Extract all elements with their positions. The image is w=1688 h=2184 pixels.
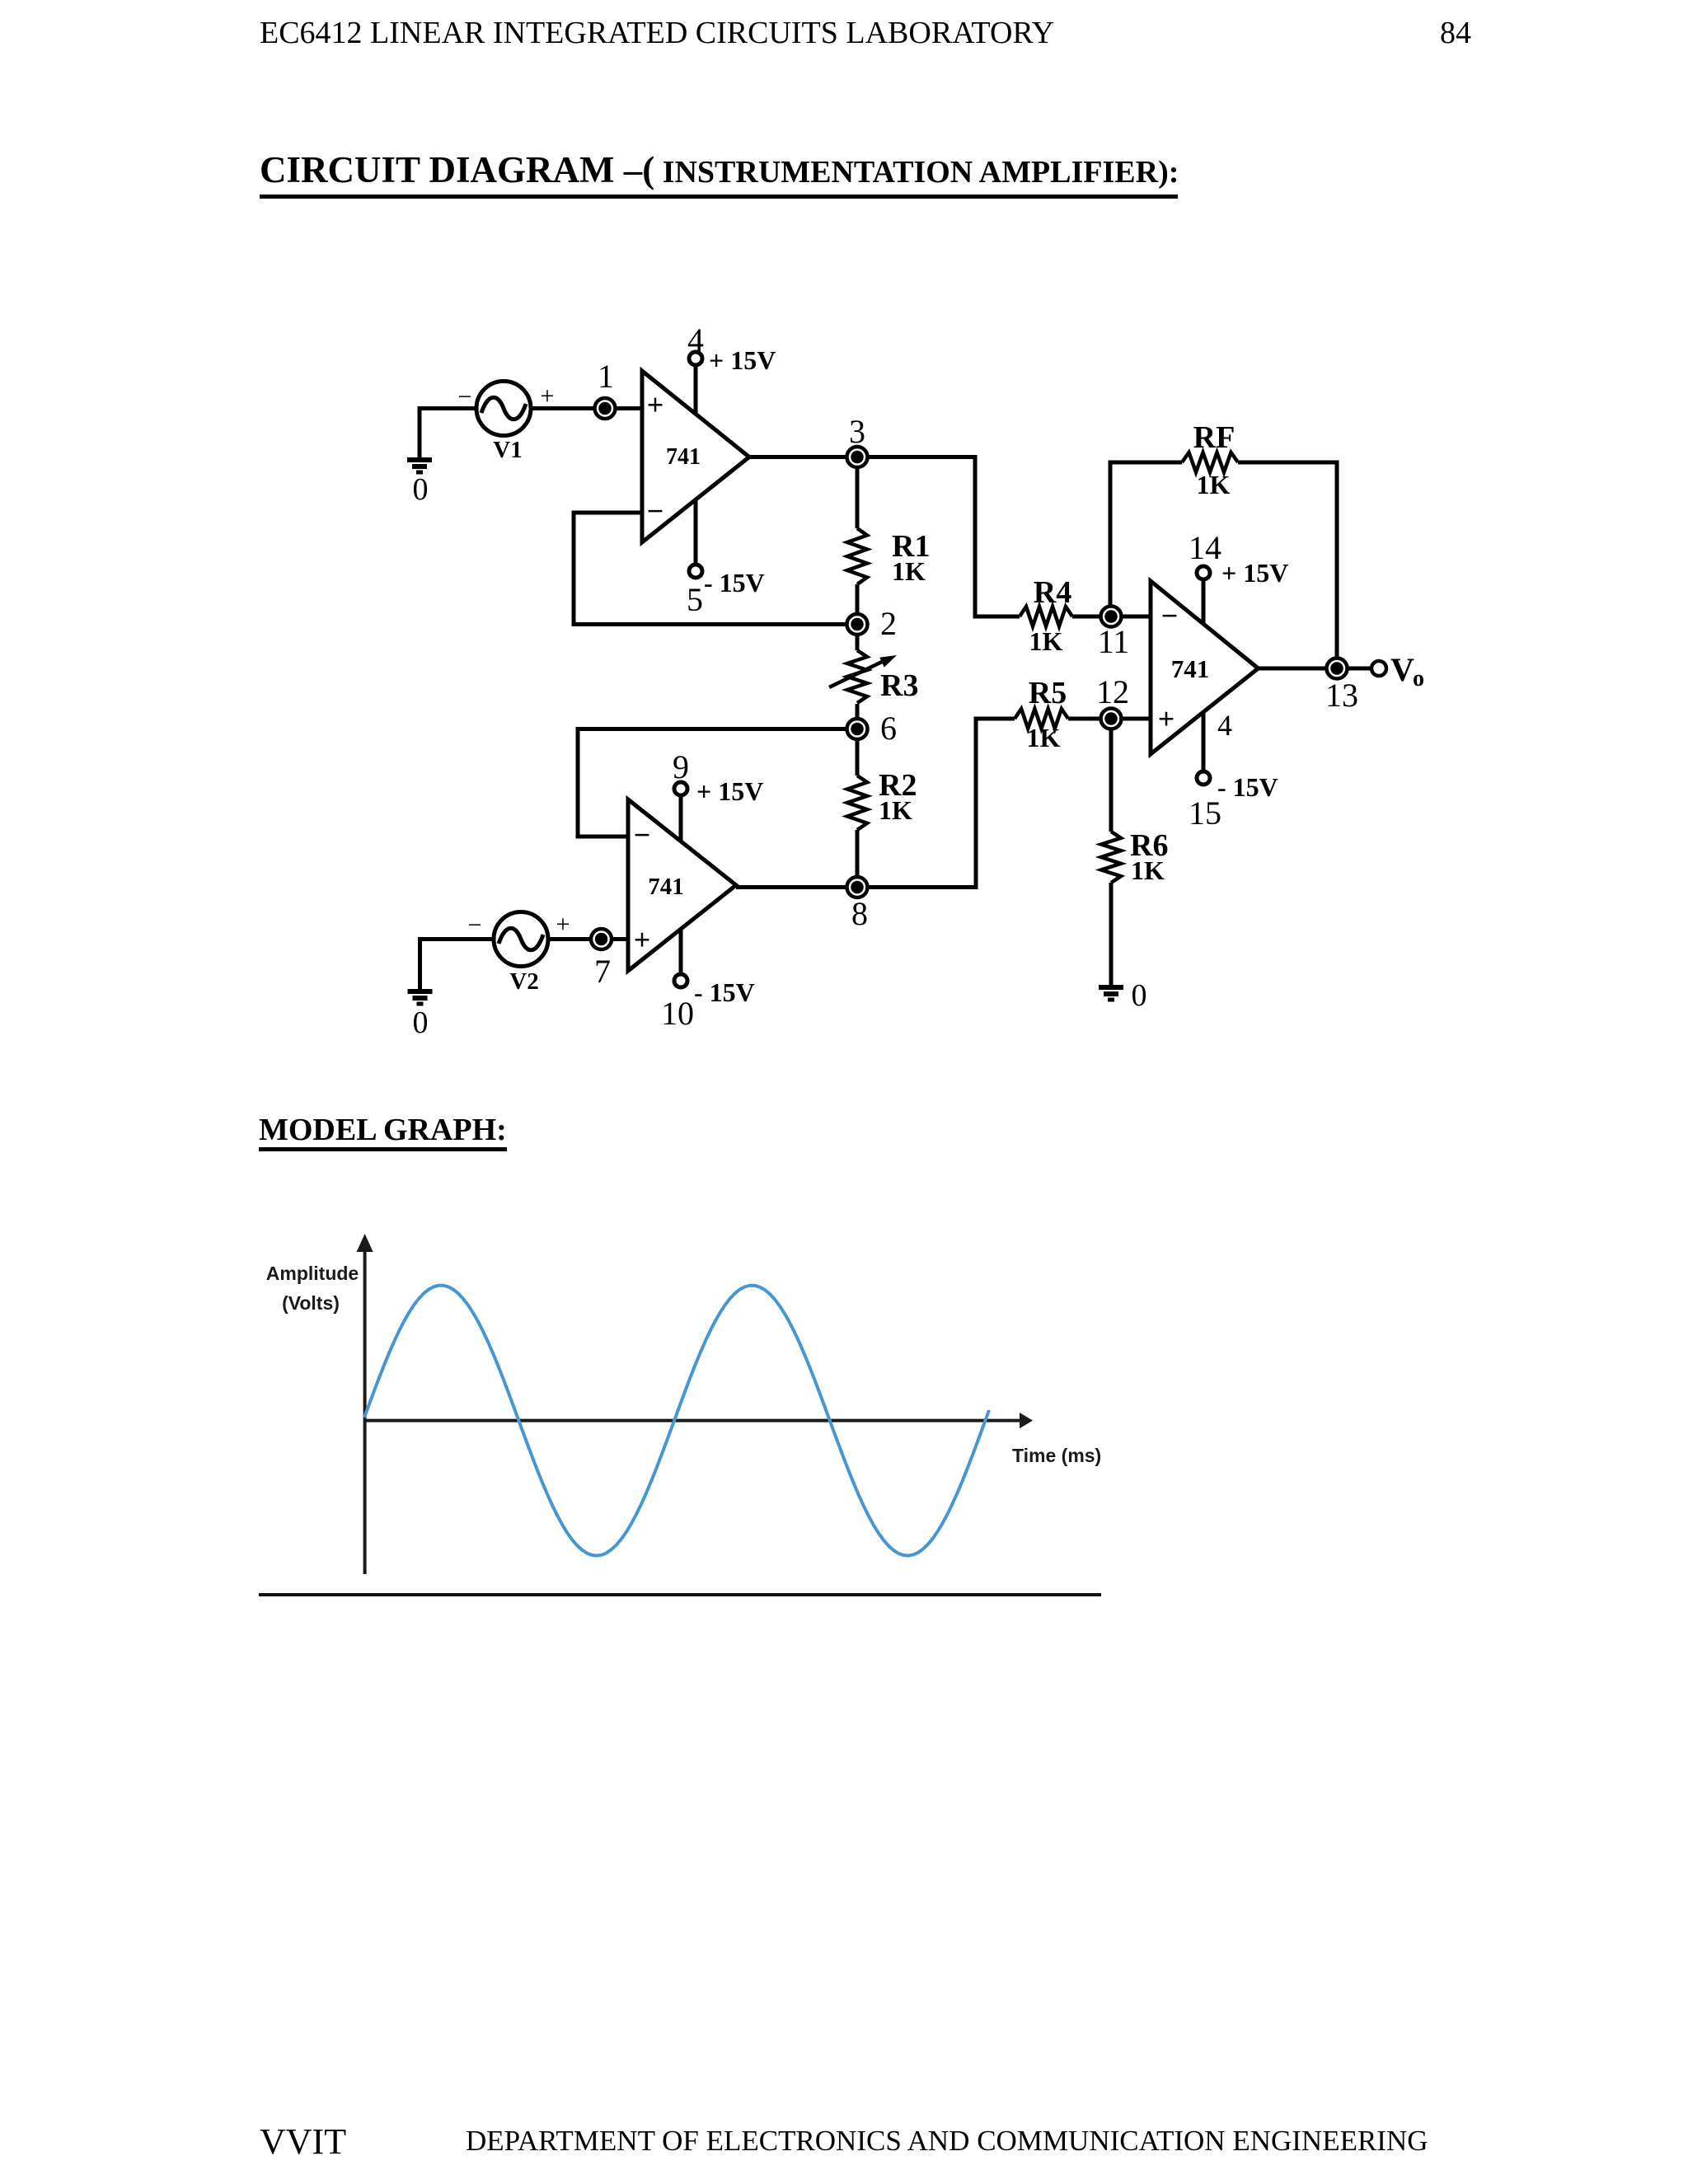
wire V1 right to node 1 — [531, 406, 642, 410]
svg-text:o: o — [1413, 666, 1424, 691]
Vo label — [1390, 651, 1424, 691]
svg-text:−: − — [647, 494, 664, 527]
U1 pin 5 stub — [689, 499, 702, 578]
source V1 — [476, 382, 531, 436]
svg-text:−: − — [458, 383, 472, 410]
svg-text:+: + — [634, 923, 651, 956]
MODEL GRAPH heading — [259, 1112, 507, 1148]
U1 pin 5 labels — [687, 568, 765, 618]
separator line — [259, 1593, 1101, 1596]
wire U2 output to node8 to corner up to R5 — [736, 719, 1015, 888]
wire node2 to R3 — [856, 625, 860, 651]
node 1 — [595, 398, 616, 419]
U3 pin 15 labels — [1189, 709, 1278, 832]
wire R2 to node8 — [856, 830, 860, 888]
svg-text:5: 5 — [687, 581, 703, 618]
svg-text:Amplitude: Amplitude — [266, 1263, 359, 1284]
R6 labels — [1130, 828, 1168, 885]
svg-text:+ 15V: + 15V — [709, 345, 776, 375]
wire node12 down to R6 — [1109, 719, 1114, 832]
svg-text:1K: 1K — [879, 795, 912, 825]
svg-text:RF: RF — [1193, 420, 1236, 455]
svg-text:+ 15V: + 15V — [696, 776, 763, 806]
svg-text:6: 6 — [880, 710, 897, 747]
node 13 — [1327, 658, 1348, 679]
R1 labels — [892, 529, 930, 586]
wire R4 right to node11 to U3 minus — [1072, 615, 1151, 619]
resistor R4 — [1020, 607, 1072, 626]
wire R1 to node2 — [856, 584, 860, 625]
R5 labels — [1027, 676, 1067, 752]
svg-text:R3: R3 — [880, 668, 918, 703]
sine wave — [364, 1286, 989, 1556]
CIRCUIT SVG — [0, 0, 1688, 1113]
svg-text:- 15V: - 15V — [1217, 772, 1278, 802]
node 12 — [1101, 709, 1122, 729]
svg-text:−: − — [1161, 599, 1179, 632]
svg-text:(Volts): (Volts) — [282, 1292, 340, 1314]
svg-text:1K: 1K — [1197, 470, 1231, 499]
wire V2 right to node7 to U2 plus — [548, 937, 628, 941]
resistor R5 — [1015, 709, 1068, 729]
title underline — [260, 194, 1178, 199]
U3 pin 14 labels — [1189, 529, 1288, 588]
svg-text:−: − — [468, 912, 482, 939]
node 2 — [847, 614, 868, 635]
page number 84 — [1440, 15, 1471, 51]
U2 pin 10 stub — [674, 929, 687, 987]
svg-text:1: 1 — [598, 358, 614, 395]
svg-text:741: 741 — [648, 874, 684, 900]
resistor R6 — [1101, 832, 1121, 883]
x axis — [365, 1419, 1022, 1422]
svg-text:11: 11 — [1098, 623, 1130, 660]
node 3 — [847, 447, 868, 467]
node 7 — [591, 929, 612, 949]
svg-text:R4: R4 — [1034, 575, 1071, 610]
svg-text:4: 4 — [687, 321, 704, 359]
source V2 — [494, 912, 548, 967]
model graph underline — [259, 1147, 507, 1151]
svg-text:0: 0 — [413, 472, 429, 507]
svg-text:9: 9 — [673, 748, 689, 785]
potentiometer R3 — [829, 650, 884, 703]
wire V2 left to ground — [420, 940, 495, 991]
footer department — [466, 2125, 1428, 2158]
R4 labels — [1029, 575, 1072, 656]
wire node6 to R2 — [856, 729, 860, 776]
svg-text:12: 12 — [1096, 673, 1129, 710]
GRAPH SVG — [0, 1113, 1688, 2184]
footer VVIT — [260, 2121, 346, 2163]
svg-text:1K: 1K — [1029, 626, 1063, 656]
svg-text:741: 741 — [666, 444, 701, 470]
svg-text:+: + — [1158, 702, 1175, 735]
node 6 — [847, 719, 868, 739]
U1 pin 4 stub — [689, 352, 702, 414]
svg-text:V: V — [1390, 651, 1414, 688]
svg-text:0: 0 — [413, 1005, 429, 1040]
svg-text:10: 10 — [661, 995, 694, 1032]
resistor RF — [1182, 452, 1238, 472]
header line — [260, 15, 1054, 51]
U1 pin 4 labels — [687, 321, 776, 375]
V1 labels — [458, 382, 555, 463]
node 11 — [1101, 607, 1122, 627]
svg-text:3: 3 — [849, 413, 865, 450]
U3 pin 15 stub — [1197, 711, 1210, 785]
svg-text:+: + — [541, 382, 555, 410]
ground (V1) — [407, 460, 432, 472]
U2 pin 9 labels — [673, 748, 763, 806]
R2 labels — [879, 768, 917, 825]
svg-text:R5: R5 — [1029, 676, 1067, 710]
svg-text:+ 15V: + 15V — [1221, 558, 1288, 588]
svg-text:1K: 1K — [892, 556, 926, 586]
wire RF left vertical from node11 — [1110, 462, 1182, 606]
svg-text:+: + — [556, 911, 570, 938]
V2 labels — [468, 911, 570, 995]
y axis label — [266, 1263, 359, 1314]
R3 arrowhead — [879, 655, 897, 668]
U3 pin 14 stub — [1197, 566, 1210, 624]
svg-text:14: 14 — [1189, 529, 1221, 566]
svg-text:−: − — [634, 818, 651, 851]
svg-text:- 15V: - 15V — [694, 977, 755, 1007]
svg-text:7: 7 — [594, 953, 611, 990]
op-amp U2 741 — [628, 799, 736, 971]
wire U2 feedback from node6 to minus input — [578, 729, 857, 837]
svg-text:8: 8 — [851, 895, 868, 932]
wire V1 left to ground corner — [420, 409, 476, 459]
svg-text:4: 4 — [1217, 709, 1232, 742]
wire R6 to ground — [1109, 883, 1114, 986]
svg-text:2: 2 — [880, 605, 897, 642]
U2 pin 9 stub — [674, 782, 687, 841]
ground (R6) — [1099, 987, 1123, 1000]
svg-text:1K: 1K — [1131, 855, 1165, 885]
resistor R2 — [847, 776, 867, 830]
U2 pin 10 labels — [661, 977, 755, 1032]
svg-text:1K: 1K — [1027, 723, 1061, 752]
svg-text:V1: V1 — [493, 437, 522, 463]
svg-text:0: 0 — [1132, 978, 1147, 1013]
svg-text:15: 15 — [1189, 794, 1221, 832]
resistor R1 — [847, 528, 867, 584]
svg-text:- 15V: - 15V — [704, 568, 765, 598]
svg-text:+: + — [647, 388, 664, 421]
svg-text:Time (ms): Time (ms) — [1012, 1445, 1101, 1466]
node 8 — [847, 877, 868, 898]
op-amp U1 741 — [642, 371, 749, 542]
wire U1 output to node 3 and corner down to R4 — [749, 457, 1020, 617]
output terminal Vo — [1371, 661, 1386, 676]
op-amp U3 741 — [1151, 581, 1259, 754]
svg-text:741: 741 — [1171, 654, 1210, 683]
svg-text:V2: V2 — [509, 968, 538, 995]
wire node3 to R1 — [856, 457, 860, 529]
wire U1 feedback from minus input — [574, 513, 857, 625]
RF labels — [1193, 420, 1236, 499]
wire R5 right to node12 to U3 plus — [1068, 717, 1151, 721]
section title — [260, 148, 1179, 191]
wire R3 to node6 — [856, 704, 860, 729]
ground (V2) — [408, 991, 433, 1004]
svg-text:13: 13 — [1325, 677, 1358, 714]
wire RF right to corner down to node13 — [1238, 462, 1337, 658]
wire U3 output to node13 to Vo — [1259, 667, 1372, 671]
y axis — [363, 1243, 367, 1574]
